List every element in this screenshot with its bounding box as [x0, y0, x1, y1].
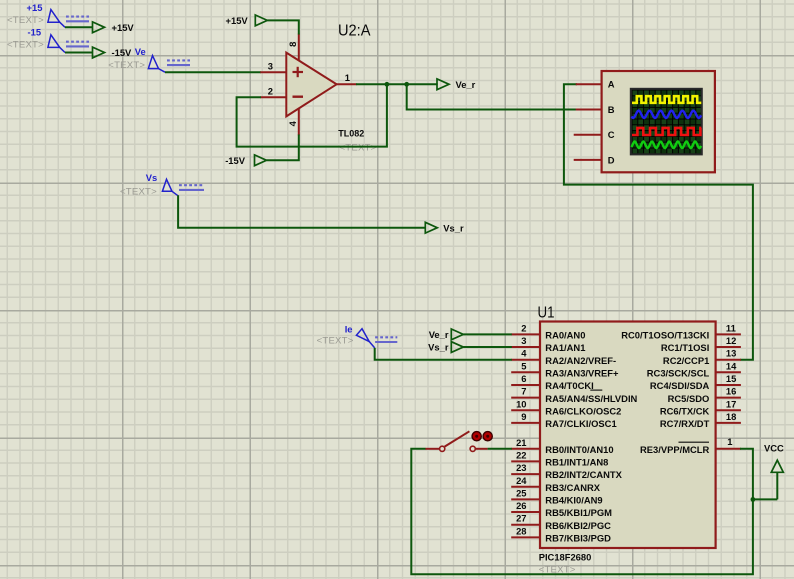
svg-text:VCC: VCC: [764, 443, 784, 454]
U1 pin 4 (RA2/AN2/VREF-): [511, 348, 616, 366]
svg-text:21: 21: [516, 437, 526, 448]
svg-text:RB6/KBI2/PGC: RB6/KBI2/PGC: [545, 520, 611, 531]
generator Vs (output signal): [120, 172, 204, 198]
svg-text:RA3/AN3/VREF+: RA3/AN3/VREF+: [545, 367, 619, 378]
svg-text:13: 13: [726, 348, 736, 359]
svg-text:+15V: +15V: [112, 22, 135, 33]
generator +15 (DC source): [7, 2, 89, 27]
scope pin B: [576, 104, 615, 115]
U1 pin 13 (RC2/CCP1): [663, 348, 741, 366]
U1 pin 9 (RA7/CLKI/OSC1): [511, 411, 616, 429]
svg-text:RA4/T0CKI: RA4/T0CKI: [545, 380, 593, 391]
svg-text:RA6/CLKO/OSC2: RA6/CLKO/OSC2: [545, 405, 621, 416]
generator -15 (DC source): [7, 27, 89, 53]
svg-text:A: A: [608, 79, 615, 90]
U1 pin 27 (RB6/KBI2/PGC): [511, 513, 611, 531]
svg-text:15: 15: [726, 373, 736, 384]
svg-text:8: 8: [287, 42, 298, 47]
U1 pin 11 (RC0/T1OSO/T13CKI): [621, 322, 741, 340]
U2:A pin 8 (V+): [287, 34, 299, 61]
svg-text:<TEXT>: <TEXT>: [7, 15, 44, 26]
op-amp labels: [338, 22, 377, 153]
svg-text:RE3/VPP/MCLR: RE3/VPP/MCLR: [640, 444, 710, 455]
svg-text:RC0/T1OSO/T13CKI: RC0/T1OSO/T13CKI: [621, 330, 709, 341]
svg-text:TL082: TL082: [338, 129, 364, 139]
U1 pin 6 (RA4/T0CKI): [511, 373, 594, 391]
svg-text:10: 10: [516, 398, 526, 409]
svg-text:22: 22: [516, 449, 526, 460]
U1 pin 3 (RA1/AN1): [511, 335, 585, 353]
terminal +15V (power rail A): [93, 22, 135, 33]
svg-text:-15: -15: [28, 27, 42, 38]
svg-text:RB1/INT1/AN8: RB1/INT1/AN8: [545, 457, 608, 468]
wire Ie to U1 pin 4: [375, 348, 512, 360]
U1 pin 5 (RA3/AN3/VREF+): [511, 360, 619, 378]
svg-text:Ve: Ve: [135, 46, 146, 57]
svg-text:RC1/T1OSI: RC1/T1OSI: [661, 342, 709, 353]
U1 pin 14 (RC3/SCK/SCL): [647, 360, 741, 378]
junction VCC tap: [751, 497, 756, 502]
scope pin A: [576, 79, 615, 90]
U1 pin 21 (RB0/INT0/AN10): [511, 437, 613, 455]
junction at output/scope branch: [404, 82, 409, 87]
wire switch loop to U1 pin 1 via bottom: [411, 449, 753, 574]
svg-text:RA1/AN1: RA1/AN1: [545, 342, 585, 353]
wire Vs_r terminal to U1 pin 3: [463, 346, 512, 348]
svg-text:RA5/AN4/SS/HLVDIN: RA5/AN4/SS/HLVDIN: [545, 393, 637, 404]
terminal Vs_r (to RA1): [428, 342, 463, 353]
svg-text:11: 11: [726, 322, 736, 333]
svg-text:2: 2: [521, 322, 526, 333]
svg-text:Ie: Ie: [345, 324, 353, 335]
U1 pin 22 (RB1/INT1/AN8): [511, 449, 608, 467]
svg-text:RB2/INT2/CANTX: RB2/INT2/CANTX: [545, 469, 622, 480]
U1 pin 24 (RB3/CANRX): [511, 475, 601, 493]
svg-text:18: 18: [726, 411, 736, 422]
svg-text:16: 16: [726, 386, 736, 397]
svg-text:RB3/CANRX: RB3/CANRX: [545, 482, 600, 493]
svg-text:14: 14: [726, 360, 737, 371]
svg-text:27: 27: [516, 513, 526, 524]
U1 pin 28 (RB7/KBI3/PGD): [511, 525, 611, 543]
wire output branch to scope channel B: [407, 84, 577, 109]
svg-text:B: B: [608, 104, 615, 115]
svg-text:-15V: -15V: [225, 155, 246, 166]
oscilloscope: [602, 71, 715, 172]
U2:A pin 1 (output): [336, 72, 357, 84]
U1 pin 7 (RA5/AN4/SS/HLVDIN): [511, 386, 637, 404]
U1 pin 23 (RB2/INT2/CANTX): [511, 462, 622, 480]
U1 pin 1 (RE3/VPP/MCLR): [640, 436, 741, 455]
U2:A pin 3 (non-inverting input): [260, 61, 287, 73]
svg-text:7: 7: [521, 386, 526, 397]
svg-text:3: 3: [268, 61, 273, 72]
scope pin D: [574, 154, 615, 165]
svg-text:RC7/RX/DT: RC7/RX/DT: [660, 418, 710, 429]
svg-text:28: 28: [516, 525, 526, 536]
switch SW1 (SPST to RB0): [425, 431, 492, 451]
svg-text:RC5/SDO: RC5/SDO: [668, 393, 710, 404]
svg-text:Ve_r: Ve_r: [429, 329, 449, 340]
svg-text:Vs_r: Vs_r: [428, 342, 449, 353]
svg-text:26: 26: [516, 500, 526, 511]
wire +15 generator to terminal: [65, 26, 93, 28]
svg-text:C: C: [608, 129, 615, 140]
U2:A pin 4 (V-): [287, 109, 299, 136]
wire Vs to Vs_r terminal: [178, 195, 425, 228]
svg-text:<TEXT>: <TEXT>: [108, 60, 145, 71]
terminal Vs_r (source side): [425, 222, 464, 233]
svg-text:RB7/KBI3/PGD: RB7/KBI3/PGD: [545, 533, 611, 544]
svg-text:25: 25: [516, 487, 526, 498]
svg-text:1: 1: [345, 72, 350, 83]
U2:A pin 2 (inverting input): [260, 85, 287, 97]
svg-text:<TEXT>: <TEXT>: [317, 336, 354, 347]
svg-text:D: D: [608, 154, 615, 165]
U1 pin 18 (RC7/RX/DT): [660, 411, 741, 429]
svg-text:RA7/CLKI/OSC1: RA7/CLKI/OSC1: [545, 418, 616, 429]
wire +15V to pin 8: [267, 20, 299, 34]
terminal +15V at U2:A pin 8: [226, 15, 268, 26]
svg-text:3: 3: [521, 335, 526, 346]
U1 pin 26 (RB5/KBI1/PGM): [511, 500, 612, 518]
U1 pin 16 (RC5/SDO): [668, 386, 741, 404]
U1 pin 15 (RC4/SDI/SDA): [650, 373, 741, 391]
svg-text:23: 23: [516, 462, 526, 473]
svg-text:PIC18F2680: PIC18F2680: [539, 551, 592, 562]
svg-text:RB4/KI0/AN9: RB4/KI0/AN9: [545, 495, 602, 506]
svg-text:2: 2: [268, 85, 273, 96]
svg-text:RA0/AN0: RA0/AN0: [545, 330, 585, 341]
U1 pin 17 (RC6/TX/CK): [660, 398, 741, 416]
svg-text:RB5/KBI1/PGM: RB5/KBI1/PGM: [545, 507, 612, 518]
svg-text:<TEXT>: <TEXT>: [7, 40, 44, 51]
microcontroller U1 PIC18F2680: [538, 305, 716, 576]
U1 pin 12 (RC1/T1OSI): [661, 335, 741, 353]
wire VCC to RB0 loop: [753, 498, 777, 500]
wire U2:A output to Ve_r terminal: [356, 83, 438, 85]
U1 pin 10 (RA6/CLKO/OSC2): [511, 398, 621, 416]
terminal VCC (power): [764, 443, 784, 500]
svg-text:Ve_r: Ve_r: [456, 79, 476, 90]
svg-text:Vs_r: Vs_r: [443, 222, 464, 233]
svg-text:1: 1: [727, 436, 732, 447]
generator Ve (input signal): [108, 46, 190, 72]
U1 pin 2 (RA0/AN0): [511, 322, 585, 340]
svg-text:U2:A: U2:A: [338, 22, 371, 39]
svg-text:Vs: Vs: [146, 172, 157, 183]
svg-text:RC6/TX/CK: RC6/TX/CK: [660, 405, 710, 416]
wire scope channel A to PIC RC2/CCP1 pin 13: [564, 84, 753, 360]
svg-text:4: 4: [287, 120, 298, 126]
svg-text:9: 9: [521, 411, 526, 422]
wire feedback output to pin 2: [237, 84, 387, 146]
svg-text:-15V: -15V: [112, 47, 133, 58]
wire switch to U1 pin 21 RB0: [488, 448, 512, 450]
svg-text:24: 24: [516, 475, 527, 486]
generator Ie (to RA2): [317, 324, 398, 348]
svg-text:12: 12: [726, 335, 736, 346]
svg-text:17: 17: [726, 398, 736, 409]
terminal Ve_r (op-amp output): [437, 79, 476, 90]
svg-text:4: 4: [521, 348, 527, 359]
terminal -15V (power rail B): [93, 47, 133, 58]
svg-text:RA2/AN2/VREF-: RA2/AN2/VREF-: [545, 355, 616, 366]
scope pin C: [574, 129, 615, 140]
terminal -15V at U2:A pin 4: [225, 155, 266, 166]
svg-text:<TEXT>: <TEXT>: [340, 143, 377, 154]
svg-text:RC3/SCK/SCL: RC3/SCK/SCL: [647, 367, 710, 378]
U1 pin 25 (RB4/KI0/AN9): [511, 487, 602, 505]
svg-text:RC4/SDI/SDA: RC4/SDI/SDA: [650, 380, 710, 391]
wire -15V to pin 4: [267, 135, 299, 161]
wire Ve_r terminal to U1 pin 2: [463, 333, 512, 335]
wire Ve to U2:A pin 3: [165, 71, 261, 73]
svg-text:+15: +15: [27, 2, 43, 13]
svg-text:RB0/INT0/AN10: RB0/INT0/AN10: [545, 444, 613, 455]
svg-text:5: 5: [521, 360, 526, 371]
svg-text:+15V: +15V: [226, 15, 249, 26]
op-amp U2:A (TL082): [286, 53, 336, 117]
svg-text:U1: U1: [538, 305, 555, 322]
svg-text:RC2/CCP1: RC2/CCP1: [663, 355, 709, 366]
terminal Ve_r (to RA0): [429, 329, 464, 340]
wire -15 generator to terminal: [65, 52, 93, 54]
svg-text:6: 6: [521, 373, 526, 384]
svg-text:<TEXT>: <TEXT>: [120, 187, 157, 198]
junction at output/feedback: [385, 82, 390, 87]
